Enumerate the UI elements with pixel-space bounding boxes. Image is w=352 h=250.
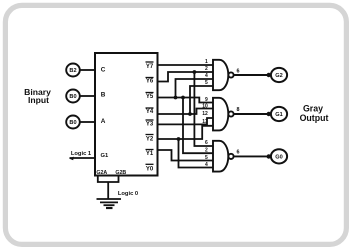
svg-text:Y3: Y3 xyxy=(146,122,154,128)
svg-text:Gray: Gray xyxy=(303,103,323,113)
svg-text:Output: Output xyxy=(300,113,329,123)
svg-text:Y6: Y6 xyxy=(146,79,154,85)
svg-text:10: 10 xyxy=(202,104,208,110)
svg-text:Input: Input xyxy=(28,95,49,105)
svg-text:5: 5 xyxy=(205,80,208,86)
svg-text:2: 2 xyxy=(205,147,208,153)
svg-text:1: 1 xyxy=(205,59,208,65)
svg-text:G2A: G2A xyxy=(96,170,107,176)
svg-text:Y7: Y7 xyxy=(146,64,154,70)
svg-text:Y5: Y5 xyxy=(146,94,154,100)
svg-text:G1: G1 xyxy=(101,153,110,159)
svg-text:6: 6 xyxy=(237,149,240,155)
svg-text:13: 13 xyxy=(202,119,208,125)
svg-text:G1: G1 xyxy=(275,112,282,118)
svg-text:8: 8 xyxy=(237,107,240,113)
svg-text:5: 5 xyxy=(205,155,208,161)
svg-text:A: A xyxy=(101,118,106,125)
svg-text:4: 4 xyxy=(205,162,208,168)
svg-text:4: 4 xyxy=(205,73,208,79)
svg-text:Logic 1: Logic 1 xyxy=(71,151,92,157)
svg-text:C: C xyxy=(101,67,106,74)
svg-text:12: 12 xyxy=(202,111,208,117)
svg-text:Y4: Y4 xyxy=(146,109,154,115)
svg-text:G2: G2 xyxy=(275,73,282,79)
svg-text:6: 6 xyxy=(205,140,208,146)
svg-text:9: 9 xyxy=(205,97,208,103)
svg-text:Y1: Y1 xyxy=(146,151,154,157)
svg-text:B0: B0 xyxy=(69,94,76,100)
svg-text:B0: B0 xyxy=(69,120,76,126)
svg-text:B2: B2 xyxy=(69,68,76,74)
svg-text:G0: G0 xyxy=(275,155,282,161)
svg-text:Logic 0: Logic 0 xyxy=(118,191,138,197)
svg-text:G2B: G2B xyxy=(115,170,126,176)
svg-text:6: 6 xyxy=(237,68,240,74)
svg-text:Y0: Y0 xyxy=(146,166,154,172)
svg-text:B: B xyxy=(101,91,106,98)
svg-text:2: 2 xyxy=(205,66,208,72)
svg-text:Y2: Y2 xyxy=(146,136,154,142)
